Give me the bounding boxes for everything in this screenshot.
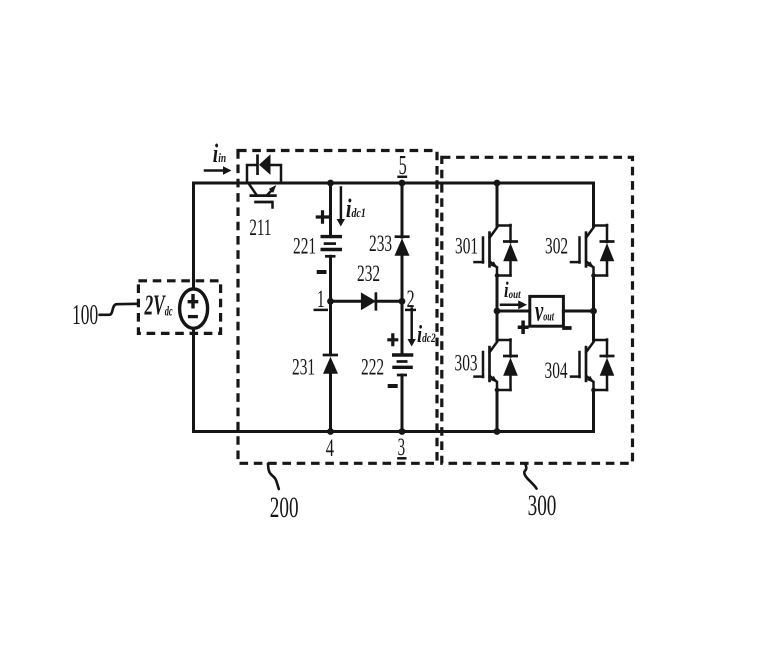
wire H-bridge right leg lower [592,311,595,340]
wire H-bridge left leg upper [496,183,499,226]
transistor 211 (IGBT with antiparallel diode) [247,154,281,207]
wire out+ to vout box [497,310,530,313]
svg-text:304: 304 [545,358,568,384]
arrow i_dc2 [408,309,416,347]
svg-text:5: 5 [399,150,407,180]
svg-text:211: 211 [249,216,271,241]
capacitor 221 (battery symbol) [321,237,343,257]
node 4 dot [327,428,334,435]
arrow i_dc1 [337,188,345,227]
wire 303 emitter to bottom bus [496,390,499,432]
node 5 dot [399,180,406,187]
node 3 label [397,435,406,462]
svg-text:300: 300 [528,490,557,522]
diode 232 [361,292,376,310]
svg-text:idc1: idc1 [346,194,366,223]
node 2 dot [399,298,406,305]
svg-text:233: 233 [369,231,392,257]
capacitor 222 (battery symbol) [392,355,413,375]
wire 302 emitter to node out- [592,275,595,311]
wire capacitor 221 leg upper [329,183,332,237]
wire left vertical upper (source to top bus) [192,183,195,290]
node 2 label [405,285,416,314]
transistor 302 (IGBT with freewheel diode) [571,225,615,278]
leader squiggle for 100 [100,304,139,315]
svg-text:idc2: idc2 [417,321,436,348]
svg-text:301: 301 [455,233,478,259]
wire top bus from source to H-bridge [194,182,594,185]
wire capacitor 222 leg upper [401,301,404,355]
voltage source V (2Vdc) [180,289,208,328]
minus mark capacitor 222 [388,384,398,388]
plus mark vout [518,321,529,335]
node dot bottom bus at H-bridge [494,428,501,435]
wire diode 231 leg lower [329,374,332,432]
wire capacitor 221 leg lower [329,256,332,301]
svg-text:200: 200 [270,492,299,524]
svg-text:100: 100 [72,300,98,331]
transistor 303 (IGBT with freewheel diode) [475,340,519,393]
minus mark vout [562,326,571,330]
node dot out+ [494,308,501,315]
dashed box 300 (inverter block) [442,157,633,463]
node dot H-bridge top [494,180,501,187]
svg-text:303: 303 [455,350,478,376]
svg-text:302: 302 [545,233,568,259]
plus mark capacitor 222 [387,333,398,346]
wire diode 231 leg upper [329,301,332,355]
node dot top of capacitor 221 [327,180,334,187]
transistor 301 (IGBT with freewheel diode) [475,225,519,278]
wire diode 233 leg upper [401,183,404,237]
leader squiggle for 300 [524,464,536,489]
wire bottom bus [194,430,594,433]
svg-text:222: 222 [361,354,384,380]
node 1 dot [327,298,334,305]
wire H-bridge right leg upper [592,183,595,226]
wire capacitor 222 leg lower [401,375,404,432]
diode 233 [395,237,410,256]
node 5 label [397,150,407,180]
wire H-bridge left leg lower [496,311,499,340]
arrow i_in [205,166,232,174]
vout box [530,296,564,326]
svg-text:221: 221 [293,233,316,259]
wire node1 to diode 232 [331,300,361,303]
svg-text:iout: iout [504,279,521,303]
wire left vertical lower (source to bottom bus) [192,328,195,432]
svg-text:232: 232 [357,261,380,287]
svg-text:231: 231 [292,354,315,380]
wire vout box to out- [563,310,593,313]
transistor 304 (IGBT with freewheel diode) [571,340,615,393]
node 1 label [314,286,329,314]
diode 231 [323,355,338,374]
arrow i_out [501,300,527,309]
wire diode 233 leg lower [401,256,404,301]
node dot out- [590,308,597,315]
svg-text:4: 4 [326,434,335,462]
plus mark capacitor 221 [316,210,330,224]
node 3 dot [399,428,406,435]
wire diode 232 to node2 [376,300,402,303]
svg-text:iin: iin [213,139,226,167]
svg-text:2Vdc: 2Vdc [144,291,173,322]
dashed box 100 (source block) [138,281,220,334]
dashed box 200 (converter block) [238,151,437,464]
wire 301 emitter to node out+ [496,275,499,311]
leader squiggle for 200 [268,464,279,489]
minus mark capacitor 221 [317,270,327,274]
wire 304 emitter to bottom bus [592,390,595,432]
